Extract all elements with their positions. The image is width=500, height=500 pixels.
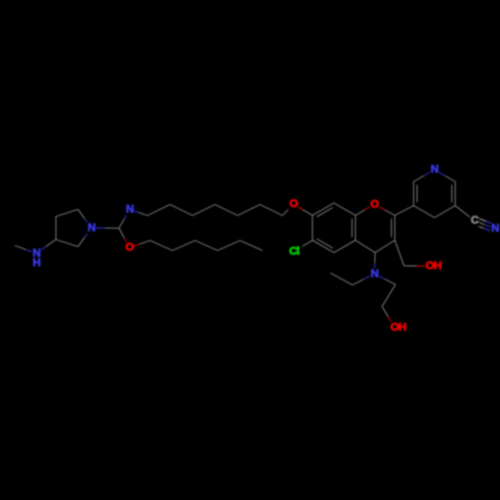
- bond b3-b4: [195, 241, 218, 251]
- bond Na-f1: [374, 274, 395, 285]
- pyrrolidine N label: [87, 222, 97, 234]
- nitrile N label: [490, 223, 500, 235]
- svg-text:O: O: [125, 242, 134, 254]
- bond B-LR: [434, 206, 455, 218]
- bond C8-C8a: [334, 203, 356, 215]
- bond LR-UR: [452, 182, 455, 206]
- bond Cc3-Cc4: [375, 240, 395, 252]
- svg-text:N: N: [371, 268, 379, 280]
- bond f2-Oh2: [382, 307, 395, 328]
- bond Cc2-LL: [395, 206, 414, 216]
- bond a8-a10: [119, 228, 129, 248]
- bond a5-a6: [78, 209, 92, 228]
- bond a8-a9: [119, 209, 130, 228]
- bond t7-Oe: [283, 204, 294, 215]
- bond Op-Cc2: [374, 204, 395, 215]
- bond LL-B: [414, 206, 435, 218]
- bond Cn-Nn: [473, 217, 496, 232]
- bond a3-a4: [55, 217, 57, 240]
- svg-text:C: C: [471, 215, 479, 227]
- bond a6-a8: [91, 227, 119, 229]
- bond a7-a3: [56, 240, 78, 247]
- aryl ether O label: [289, 198, 299, 210]
- bond a6-a7: [78, 228, 92, 247]
- hydroxyl OH label 2: [390, 321, 407, 333]
- bond Cc4-Na: [373, 253, 376, 274]
- bond b4-b5: [218, 241, 241, 251]
- bond t4-t5: [215, 205, 238, 216]
- amine N-H hydrogen label: [32, 257, 42, 269]
- pyran O label: [370, 198, 380, 210]
- bond UR-Np: [434, 170, 455, 182]
- svg-text:Cl: Cl: [289, 246, 299, 258]
- bond C7-C8: [312, 203, 334, 217]
- bond t6-t7: [260, 205, 283, 216]
- bond g1-Oh1: [404, 265, 430, 267]
- bond f1-f2: [382, 285, 396, 307]
- bond UL-LL: [414, 182, 417, 206]
- svg-text:O: O: [370, 198, 379, 210]
- bond t1-t2: [148, 205, 171, 216]
- bond Cc3-g1: [395, 240, 404, 266]
- bond Cc2-Cc3: [391, 215, 394, 240]
- svg-text:N: N: [126, 203, 134, 215]
- hydroxyl OH label 1: [425, 260, 442, 272]
- bond t3-t4: [193, 205, 216, 216]
- bond a1-a2: [15, 246, 37, 254]
- pyridine N label: [430, 164, 440, 176]
- bond b2-b3: [173, 241, 196, 251]
- bond C8a-Op: [355, 204, 374, 215]
- bond b1-b2: [150, 241, 173, 251]
- bond Oe-C7: [293, 204, 312, 215]
- bond LR-Cn: [455, 206, 474, 221]
- bond t5-t6: [238, 205, 261, 216]
- bond Np-UL: [414, 170, 435, 182]
- bond C6b-Cl: [294, 240, 312, 251]
- bond t2-t3: [170, 205, 193, 216]
- svg-text:H: H: [33, 257, 41, 269]
- svg-text:N: N: [431, 164, 439, 176]
- bond a10-b1: [129, 241, 150, 248]
- svg-text:OH: OH: [426, 260, 442, 272]
- nitrile C label: [470, 215, 480, 227]
- bond C6b-C7: [311, 215, 313, 240]
- chain amine N label: [125, 203, 134, 215]
- svg-text:N: N: [491, 223, 499, 235]
- bond a2-a3: [36, 240, 56, 254]
- svg-text:N: N: [88, 222, 96, 234]
- tertiary amine N label: [370, 268, 380, 280]
- bond a9-t1: [130, 209, 148, 215]
- bond b5-b6: [240, 241, 263, 251]
- bond Cc4-C4a: [355, 240, 375, 252]
- bond C8a-C4a: [352, 215, 355, 240]
- bond C4a-C5b: [334, 240, 356, 252]
- chain ether O label: [125, 242, 135, 254]
- svg-text:O: O: [289, 198, 298, 210]
- chlorine label: [286, 246, 303, 258]
- bond C5b-C6b: [312, 239, 334, 253]
- amine N-H nitrogen label: [32, 247, 42, 259]
- bond e1-e2: [331, 273, 353, 285]
- svg-text:OH: OH: [390, 321, 406, 333]
- bond a4-a5: [56, 209, 78, 216]
- bond Na-e1: [353, 274, 375, 285]
